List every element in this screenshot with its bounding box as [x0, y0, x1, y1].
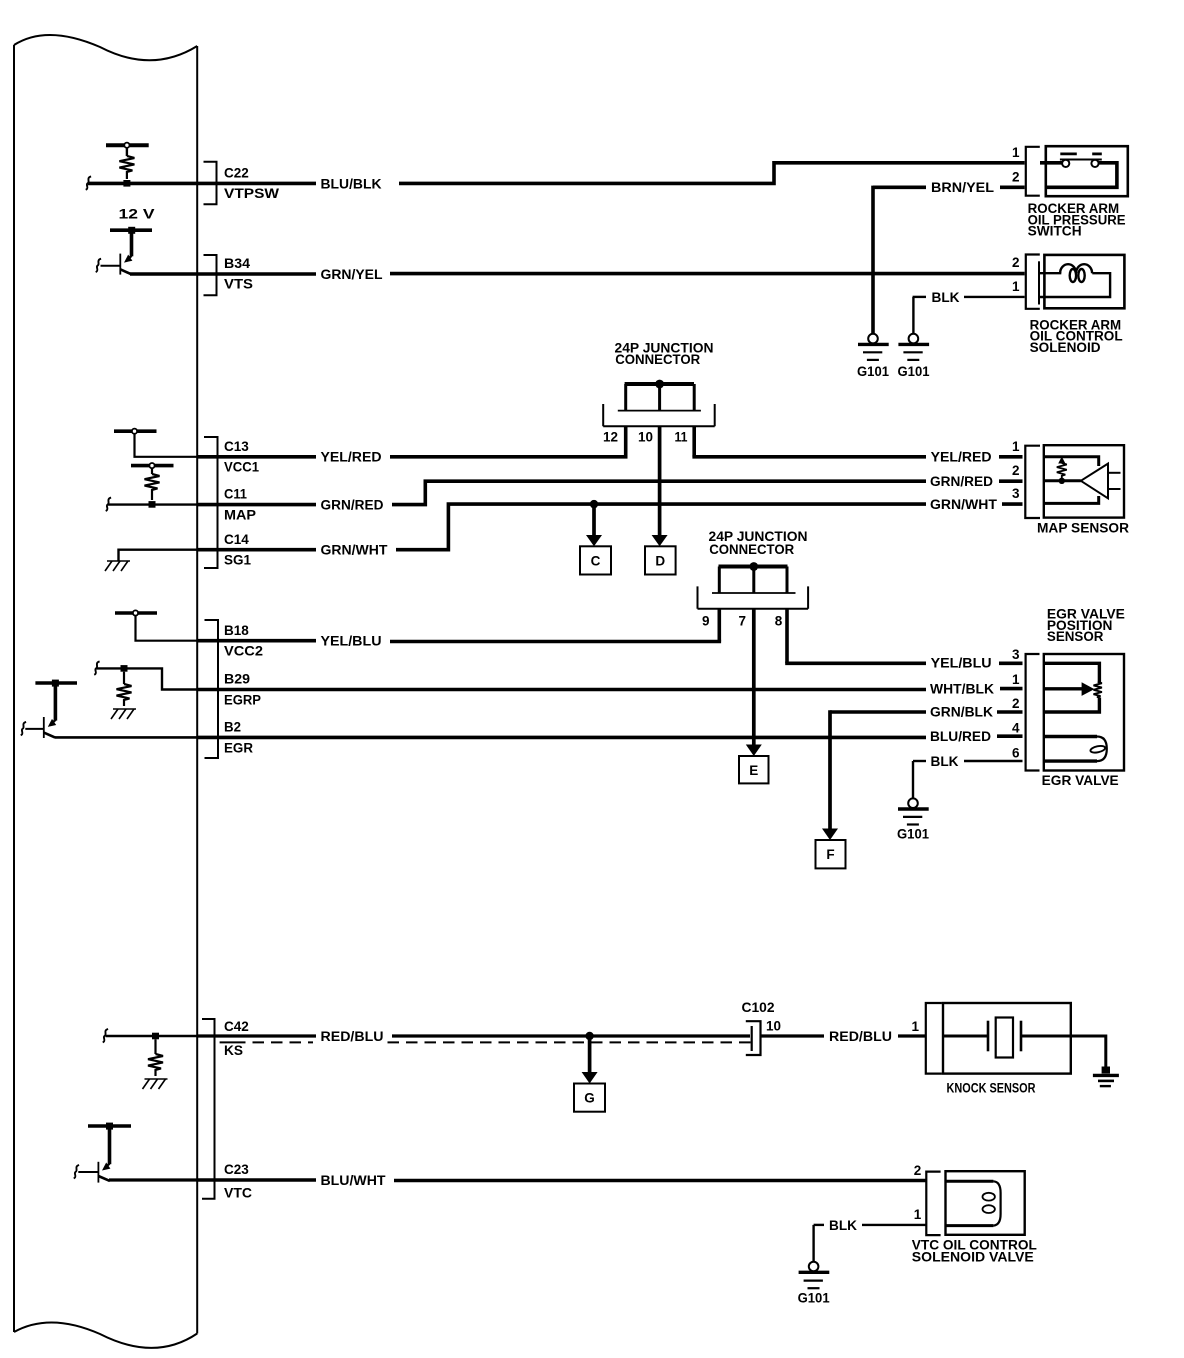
VTC solenoid coil	[946, 1181, 1001, 1225]
wire B34 internal	[130, 272, 197, 276]
svg-text:BRN/YEL: BRN/YEL	[931, 180, 994, 195]
svg-text:BLU/BLK: BLU/BLK	[321, 176, 382, 191]
svg-text:SENSOR: SENSOR	[1047, 629, 1104, 644]
svg-text:4: 4	[1012, 720, 1020, 735]
wire BLK from G101 to EGR valve pin 6	[913, 760, 926, 762]
svg-text:7: 7	[738, 614, 746, 629]
rocker arm oil control solenoid box	[1044, 255, 1124, 308]
connector bracket (pressure switch)	[1026, 147, 1040, 196]
rocker arm oil pressure switch box	[1046, 146, 1128, 196]
connector bracket (MAP sensor)	[1025, 446, 1040, 518]
svg-text:E: E	[749, 763, 758, 778]
24P junction connector (lower) symbol	[698, 562, 809, 663]
transistor Q at EGR	[21, 683, 57, 738]
resistor to chassis ground at KS	[103, 1029, 197, 1089]
connector group bracket C13-C14	[204, 437, 218, 568]
svg-text:3: 3	[1012, 486, 1020, 501]
earth ground at knock sensor	[1093, 1067, 1119, 1087]
svg-text:GRN/WHT: GRN/WHT	[930, 497, 998, 512]
svg-text:EGR VALVE: EGR VALVE	[1042, 773, 1119, 788]
connector C box	[580, 546, 611, 574]
svg-text:2: 2	[914, 1163, 922, 1178]
shield dashed line	[220, 1041, 246, 1043]
ground G101 (VTC)	[798, 1262, 830, 1306]
svg-text:2: 2	[1012, 169, 1020, 184]
drop to connector C from GRN/WHT	[592, 504, 596, 535]
wire WHT/BLK from B29 to EGR valve pin 1	[197, 688, 926, 692]
connector bracket (EGR valve)	[1026, 654, 1040, 771]
pressure switch contacts	[1040, 154, 1117, 187]
svg-text:1: 1	[1012, 439, 1020, 454]
12 V supply bar	[110, 228, 152, 232]
svg-text:G101: G101	[898, 364, 930, 379]
svg-text:12: 12	[603, 430, 618, 445]
svg-text:1: 1	[911, 1019, 919, 1034]
svg-text:RED/BLU: RED/BLU	[321, 1029, 384, 1044]
svg-text:YEL/BLU: YEL/BLU	[321, 634, 382, 649]
24P junction connector (upper) symbol	[603, 380, 715, 457]
supply bar at VTC transistor	[88, 1124, 131, 1128]
svg-text:C42: C42	[224, 1019, 249, 1034]
EGR valve box	[1044, 654, 1124, 771]
svg-text:EGRP: EGRP	[224, 692, 261, 707]
resistor to chassis ground at EGRP	[94, 661, 197, 719]
VTC solenoid box	[946, 1171, 1025, 1235]
svg-text:1: 1	[1012, 279, 1020, 294]
svg-text:SWITCH: SWITCH	[1028, 224, 1082, 239]
svg-text:CONNECTOR: CONNECTOR	[709, 542, 794, 557]
ground G101 (right)	[898, 334, 930, 379]
svg-text:BLU/WHT: BLU/WHT	[321, 1173, 387, 1188]
svg-text:SOLENOID: SOLENOID	[1030, 340, 1101, 355]
wire break mark	[106, 498, 111, 511]
wire C23 internal	[109, 1178, 197, 1181]
connector F box	[816, 840, 846, 868]
BRN/YEL ground drop wire	[871, 186, 875, 334]
wire YEL/BLU junction pin 8 to EGR valve pin 3	[785, 661, 926, 665]
connector pin bracket C22	[204, 162, 217, 205]
svg-text:WHT/BLK: WHT/BLK	[930, 682, 994, 697]
wire BRN/YEL to switch pin 2	[873, 186, 926, 190]
wire RED/BLU from C42 to C102	[197, 1034, 316, 1037]
knock sensor box	[943, 1003, 1071, 1074]
svg-text:YEL/RED: YEL/RED	[931, 450, 992, 465]
svg-text:G101: G101	[897, 827, 929, 842]
wire GRN/BLK from EGR valve pin 2 to connector F	[830, 710, 926, 714]
svg-text:C: C	[591, 554, 601, 569]
svg-text:GRN/WHT: GRN/WHT	[321, 543, 389, 558]
ECM control module torn-box outline	[14, 35, 197, 1348]
svg-text:G: G	[584, 1091, 595, 1106]
pull-up at VCC2	[115, 610, 197, 640]
ground G101 (left)	[857, 334, 889, 379]
svg-text:B2: B2	[224, 720, 241, 735]
svg-text:BLK: BLK	[932, 290, 960, 305]
wire break mark	[86, 176, 91, 189]
connector D box	[645, 546, 676, 574]
wire BLU/WHT from C23 to VTC solenoid pin 2	[197, 1178, 316, 1182]
wire GRN/WHT from C14 to MAP sensor pin 3	[197, 548, 316, 552]
svg-text:VCC2: VCC2	[224, 644, 263, 659]
svg-text:G101: G101	[798, 1291, 830, 1306]
pull-up resistor network at MAP	[131, 463, 174, 508]
wire YEL/RED junction pin 11 to MAP pin 1	[692, 455, 926, 459]
connector pin bracket B34	[204, 255, 217, 295]
drop to connector G	[588, 1036, 592, 1073]
wire GRN/YEL from B34 to solenoid pin 2	[197, 272, 316, 276]
svg-text:3: 3	[1012, 647, 1020, 662]
wire B2 internal	[55, 736, 197, 739]
wire C11 internal	[108, 503, 197, 505]
svg-text:8: 8	[775, 614, 783, 629]
junction pin 7 drop to connector E	[752, 567, 755, 594]
transistor Q at VTC	[74, 1126, 111, 1183]
svg-text:12 V: 12 V	[119, 207, 155, 222]
wire YEL/BLU from B18 to junction pin 9	[197, 639, 316, 643]
svg-text:YEL/BLU: YEL/BLU	[931, 655, 992, 670]
pull-up resistor network at VTPSW	[106, 143, 149, 187]
svg-text:YEL/RED: YEL/RED	[321, 450, 382, 465]
solenoid coil	[1039, 264, 1110, 297]
svg-text:C23: C23	[224, 1162, 249, 1177]
svg-text:VCC1: VCC1	[224, 460, 259, 475]
knock sensor piezo element	[943, 1018, 1106, 1069]
svg-text:EGR: EGR	[224, 740, 253, 755]
svg-text:10: 10	[638, 430, 653, 445]
wire BLK from G101 to solenoid pin 1	[913, 296, 926, 298]
wire BLK from G101 to VTC solenoid pin 1	[814, 1224, 824, 1226]
svg-text:6: 6	[1012, 746, 1020, 761]
svg-text:B18: B18	[224, 623, 249, 638]
svg-text:2: 2	[1012, 696, 1020, 711]
svg-text:G101: G101	[857, 364, 889, 379]
svg-text:CONNECTOR: CONNECTOR	[615, 352, 700, 367]
junction dot on RED/BLU	[585, 1032, 593, 1040]
svg-text:C11: C11	[224, 487, 247, 502]
MAP sensor internals	[1044, 457, 1121, 504]
svg-text:1: 1	[1012, 672, 1020, 687]
EGR position sensor potentiometer	[1044, 663, 1102, 712]
svg-text:BLU/RED: BLU/RED	[930, 729, 991, 744]
svg-text:KS: KS	[224, 1043, 243, 1058]
connector bracket (oil control solenoid)	[1026, 255, 1040, 309]
svg-text:MAP: MAP	[224, 507, 256, 522]
wire RED/BLU from C102 to knock sensor	[761, 1034, 825, 1037]
svg-text:10: 10	[766, 1019, 781, 1034]
svg-text:GRN/RED: GRN/RED	[930, 474, 993, 489]
svg-text:B29: B29	[224, 672, 250, 687]
svg-text:9: 9	[702, 614, 710, 629]
wire BLU/RED from B2 to EGR valve pin 4	[197, 736, 926, 740]
svg-text:11: 11	[675, 430, 688, 445]
supply bar at EGR transistor	[35, 681, 77, 685]
wire BLU/BLK from C22 to switch pin 1	[197, 182, 316, 186]
wire GRN/RED from C11 to MAP sensor pin 2	[197, 503, 316, 507]
connector group bracket B18-B2	[205, 620, 219, 758]
chassis ground at SG1	[105, 550, 197, 571]
svg-text:D: D	[655, 554, 665, 569]
connector bracket (knock sensor)	[926, 1003, 942, 1074]
svg-text:GRN/BLK: GRN/BLK	[930, 704, 993, 719]
svg-text:SOLENOID VALVE: SOLENOID VALVE	[912, 1250, 1034, 1265]
connector G box	[574, 1084, 605, 1112]
wire YEL/RED from C13 to junction pin 12	[197, 455, 316, 459]
svg-text:SG1: SG1	[224, 553, 251, 568]
svg-text:MAP SENSOR: MAP SENSOR	[1037, 520, 1129, 535]
svg-text:VTS: VTS	[224, 277, 253, 292]
svg-text:VTPSW: VTPSW	[224, 186, 279, 201]
MAP sensor box	[1044, 445, 1124, 517]
svg-text:BLK: BLK	[829, 1218, 857, 1233]
junction dot on GRN/WHT	[590, 500, 598, 508]
ground G101 (EGR)	[897, 798, 929, 841]
transistor Q at VTS	[96, 230, 133, 275]
junction pin 10 drop to connector D	[658, 384, 661, 411]
connector pin line	[1038, 261, 1040, 304]
svg-text:C13: C13	[224, 439, 249, 454]
svg-text:C22: C22	[224, 165, 249, 180]
connector group bracket C42-C23	[202, 1019, 215, 1199]
svg-text:GRN/YEL: GRN/YEL	[321, 267, 383, 282]
svg-text:RED/BLU: RED/BLU	[829, 1029, 892, 1044]
svg-text:F: F	[826, 847, 834, 862]
svg-text:BLK: BLK	[931, 754, 959, 769]
svg-text:1: 1	[1012, 145, 1020, 160]
connector bracket (VTC solenoid)	[926, 1172, 940, 1236]
svg-text:2: 2	[1012, 255, 1020, 270]
connector E box	[739, 756, 769, 783]
svg-text:C14: C14	[224, 532, 249, 547]
svg-text:KNOCK SENSOR: KNOCK SENSOR	[947, 1081, 1036, 1096]
svg-text:B34: B34	[224, 256, 251, 271]
EGR valve solenoid coil	[1044, 737, 1107, 762]
svg-text:C102: C102	[742, 1000, 775, 1015]
svg-text:1: 1	[914, 1207, 922, 1222]
wire C22 internal	[88, 182, 197, 186]
pull-up at VCC1	[114, 429, 197, 457]
svg-text:GRN/RED: GRN/RED	[321, 498, 384, 513]
svg-text:VTC: VTC	[224, 1185, 252, 1200]
svg-text:2: 2	[1012, 463, 1020, 478]
